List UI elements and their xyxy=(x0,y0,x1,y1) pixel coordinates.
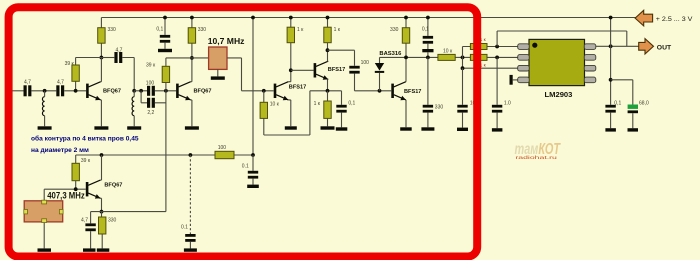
ground SAW resonator xyxy=(38,248,52,251)
wire branch down to 2,2 cap xyxy=(141,91,147,103)
ground input coil xyxy=(38,126,52,129)
svg-text:1 к: 1 к xyxy=(334,27,341,33)
wire tank node to caps xyxy=(134,90,147,92)
capacitor 68,0 electrolytic xyxy=(611,80,649,128)
wire caps to stage2 base node xyxy=(155,91,176,103)
svg-text:39 к: 39 к xyxy=(81,158,91,164)
node stage2 base xyxy=(164,89,168,93)
capacitor 0,1 rail decoupling left xyxy=(156,18,170,49)
resistor 39k stage2 base bias xyxy=(146,58,170,91)
svg-text:1 к: 1 к xyxy=(297,27,304,33)
arrow +2.5..3V supply xyxy=(635,10,693,26)
node dashed branch xyxy=(189,153,193,157)
svg-text:+ 2.5 ... 3 V: + 2.5 ... 3 V xyxy=(656,16,693,23)
resistor 1k if-amp2 collector xyxy=(324,18,341,43)
wire emitter RC branch xyxy=(91,212,102,224)
resistor R330 stage2 collector xyxy=(188,18,206,44)
wire top supply rail xyxy=(101,17,636,19)
capacitor 100 series top xyxy=(146,80,155,96)
svg-text:BFQ67: BFQ67 xyxy=(104,182,122,188)
resistor R330 detector collector xyxy=(390,18,410,58)
ground oscillator cap xyxy=(83,248,96,251)
svg-text:330: 330 xyxy=(198,27,207,33)
ground stage2 coil xyxy=(127,126,141,129)
svg-text:1 к: 1 к xyxy=(314,101,321,107)
capacitor 0,1 rail decoupling right of R330 xyxy=(422,18,434,58)
node stage1 collector junction xyxy=(100,56,104,60)
wire emitter node row xyxy=(310,90,342,92)
watermark radiohat logo xyxy=(515,141,561,160)
resonator 407,3 MHz SAW xyxy=(24,189,85,248)
capacitor 4,7 input coupling xyxy=(24,80,32,97)
ground supply decoupling cap xyxy=(247,185,259,188)
wire if-amp1 emitter ground xyxy=(288,100,291,126)
pin 4 left xyxy=(518,77,530,83)
capacitor 4,7 second coupling xyxy=(56,80,64,97)
node if-amp2 base tap xyxy=(289,68,293,72)
wire oscillator emitter xyxy=(100,198,101,211)
wire detector output line xyxy=(380,56,438,58)
transistor BFS17 detector xyxy=(391,82,421,101)
wire filtered supply line xyxy=(76,154,253,156)
pin 2 left xyxy=(518,55,530,61)
transistor BFS17 if-amp1 xyxy=(274,82,307,101)
wire oscillator base line xyxy=(44,188,86,190)
svg-text:OUT: OUT xyxy=(657,44,672,51)
svg-text:BFS17: BFS17 xyxy=(404,89,421,95)
ground oscillator resistor xyxy=(97,248,110,251)
svg-text:4,7: 4,7 xyxy=(116,47,123,53)
svg-text:39 к: 39 к xyxy=(65,61,75,67)
wire oscillator output to mixer xyxy=(102,211,166,213)
svg-text:100: 100 xyxy=(361,60,370,66)
ground emitter bypass cap xyxy=(336,127,348,130)
wire feedback loop over IC xyxy=(497,31,627,47)
ground 100 cap xyxy=(457,128,468,131)
node stage2 input xyxy=(132,89,136,93)
pin 6 right xyxy=(584,65,596,71)
svg-text:BFS17: BFS17 xyxy=(328,67,345,73)
capacitor 2,2 series bottom xyxy=(147,98,155,116)
svg-text:100: 100 xyxy=(146,80,155,86)
resistor 10k series to comparator xyxy=(438,48,455,60)
resistor 1k comparator top xyxy=(463,37,518,57)
ground stage1 emitter xyxy=(94,126,108,129)
svg-text:BFQ67: BFQ67 xyxy=(194,89,212,95)
ground stage2 emitter xyxy=(185,126,199,129)
svg-text:radiohat.ru: radiohat.ru xyxy=(515,155,557,160)
diode BAS316 xyxy=(375,51,402,91)
svg-text:68,0: 68,0 xyxy=(639,101,649,107)
svg-text:330: 330 xyxy=(435,104,444,110)
transistor BFQ67 oscillator xyxy=(86,180,123,199)
ground filter xyxy=(211,76,225,79)
wire LO injection from oscillator emitter xyxy=(165,91,167,212)
svg-text:407,3 MHz: 407,3 MHz xyxy=(47,190,85,200)
resistor 10k bias feedback xyxy=(260,91,310,135)
op-amp U1 LM2903 body xyxy=(529,39,585,99)
svg-text:2,2: 2,2 xyxy=(147,110,154,116)
svg-text:1.0: 1.0 xyxy=(504,101,511,107)
ground 68,0 cap xyxy=(628,128,639,131)
capacitor 0,1 emitter bypass xyxy=(336,91,355,128)
capacitor 0,1 output filter xyxy=(605,101,621,129)
svg-text:4,7: 4,7 xyxy=(57,80,64,86)
ground rail decoupling left xyxy=(158,49,172,52)
resistor 1k comparator bottom xyxy=(470,54,517,67)
ground 330 cap xyxy=(421,127,434,130)
pin 3 left xyxy=(518,65,530,71)
svg-text:330: 330 xyxy=(390,27,399,33)
wire stage1 collector xyxy=(100,58,103,82)
node base bias tap xyxy=(262,89,266,93)
wire stage2 collector xyxy=(191,43,192,81)
wire to stage1 base xyxy=(64,90,86,92)
resistor 39k stage1 base bias xyxy=(65,61,80,91)
svg-text:4,7: 4,7 xyxy=(81,218,88,224)
ground 0,1 right xyxy=(605,128,616,131)
wire rail drop right side xyxy=(610,18,612,105)
transistor BFQ67 stage1 xyxy=(86,82,121,101)
svg-text:10 к: 10 к xyxy=(443,48,453,54)
wire stage1 bias branch xyxy=(76,58,102,66)
pin 1 left xyxy=(518,44,530,50)
capacitor 0.1 optional xyxy=(181,225,196,249)
svg-text:BFS17: BFS17 xyxy=(289,85,306,91)
wire oscillator collector to supply xyxy=(100,155,101,180)
svg-text:330: 330 xyxy=(108,27,117,33)
wire antenna input xyxy=(10,90,24,92)
svg-text:LM2903: LM2903 xyxy=(545,90,573,99)
ground detector emitter xyxy=(400,127,412,130)
ground comparator pin4 sideways xyxy=(510,75,518,85)
node stage2 collector xyxy=(190,56,194,60)
ground 1k emitter resistor xyxy=(321,126,335,129)
svg-text:0.1: 0.1 xyxy=(242,164,249,170)
svg-text:330: 330 xyxy=(108,217,117,223)
svg-text:100: 100 xyxy=(218,145,227,151)
wire to comparator network xyxy=(455,56,470,58)
wire stage2 emitter to ground xyxy=(191,100,192,126)
ground if-amp1 emitter xyxy=(285,126,297,129)
wire stage2 bias branch xyxy=(166,57,192,59)
wire if-amp2 collector xyxy=(327,43,330,62)
resistor 100 supply filter xyxy=(215,145,234,159)
transistor BFQ67 stage2 mixer xyxy=(176,82,211,101)
inductor input tank coil xyxy=(42,91,44,127)
svg-text:0.1: 0.1 xyxy=(181,225,188,231)
capacitor 100 comparator input filter xyxy=(457,68,478,127)
capacitor 4,7 oscillator emitter xyxy=(81,218,96,249)
svg-text:BAS316: BAS316 xyxy=(379,51,402,57)
node if-amp2 collector out xyxy=(326,48,330,52)
transistor BFS17 if-amp2 xyxy=(314,61,346,79)
arrow OUT output xyxy=(639,39,672,54)
pin 7 right xyxy=(584,55,596,61)
capacitor 1.0 comparator reference xyxy=(492,57,511,128)
wire stage1 emitter to ground xyxy=(100,100,103,126)
wire supply drop to filtered node xyxy=(252,18,254,156)
wire base line detector stage xyxy=(355,90,392,92)
svg-text:0,1: 0,1 xyxy=(156,26,163,32)
note coil winding annotation xyxy=(31,135,139,155)
resistor 1k if-amp1 collector xyxy=(287,18,304,43)
resistor R330 stage1 collector xyxy=(98,18,116,58)
filter 10,7 MHz ceramic xyxy=(192,36,245,76)
wire detector collector xyxy=(405,57,407,81)
wire if-amp1 collector xyxy=(288,43,291,82)
wire branch to pin3 xyxy=(463,57,518,68)
ground 1.0 cap xyxy=(492,128,503,131)
resistor 330 oscillator emitter xyxy=(99,212,117,249)
wire if-amp2 emitter xyxy=(327,79,330,90)
wire comparator output to OUT xyxy=(596,45,639,47)
svg-text:0,1: 0,1 xyxy=(614,101,621,107)
pin 5 right xyxy=(584,77,596,83)
svg-text:39 к: 39 к xyxy=(146,62,156,68)
svg-text:оба контура по 4 витка пров 0,: оба контура по 4 витка пров 0,45 xyxy=(31,135,139,143)
svg-text:4,7: 4,7 xyxy=(24,80,31,86)
capacitor 100 coupling to detector xyxy=(349,60,369,91)
capacitor 330 output filter xyxy=(423,57,444,127)
capacitor 0.1 supply decoupling xyxy=(242,155,258,185)
wire dashed to optional cap xyxy=(189,155,191,234)
svg-text:10 к: 10 к xyxy=(270,102,280,108)
resistor 1k if-amp2 emitter xyxy=(314,91,332,127)
pin 8 right xyxy=(584,44,596,50)
svg-text:0,1: 0,1 xyxy=(422,27,429,33)
wire detector emitter ground xyxy=(405,100,407,127)
inductor stage2 tank coil xyxy=(132,91,134,127)
capacitor 4,7 interstage coupling xyxy=(101,47,134,90)
red highlight border xyxy=(9,7,478,256)
svg-text:0,1: 0,1 xyxy=(348,101,355,107)
wire collector to coupling cap xyxy=(328,50,355,66)
wire input node xyxy=(31,90,56,92)
wire to if-amp2 base xyxy=(291,69,314,71)
svg-text:BFQ67: BFQ67 xyxy=(103,89,121,95)
resistor 39k oscillator bias xyxy=(72,155,91,189)
ground optional cap xyxy=(184,248,197,251)
svg-text:10,7 MHz: 10,7 MHz xyxy=(208,36,245,46)
wire filter output to BFS17 base xyxy=(227,58,274,91)
svg-text:на диаметре 2 мм: на диаметре 2 мм xyxy=(31,147,89,154)
